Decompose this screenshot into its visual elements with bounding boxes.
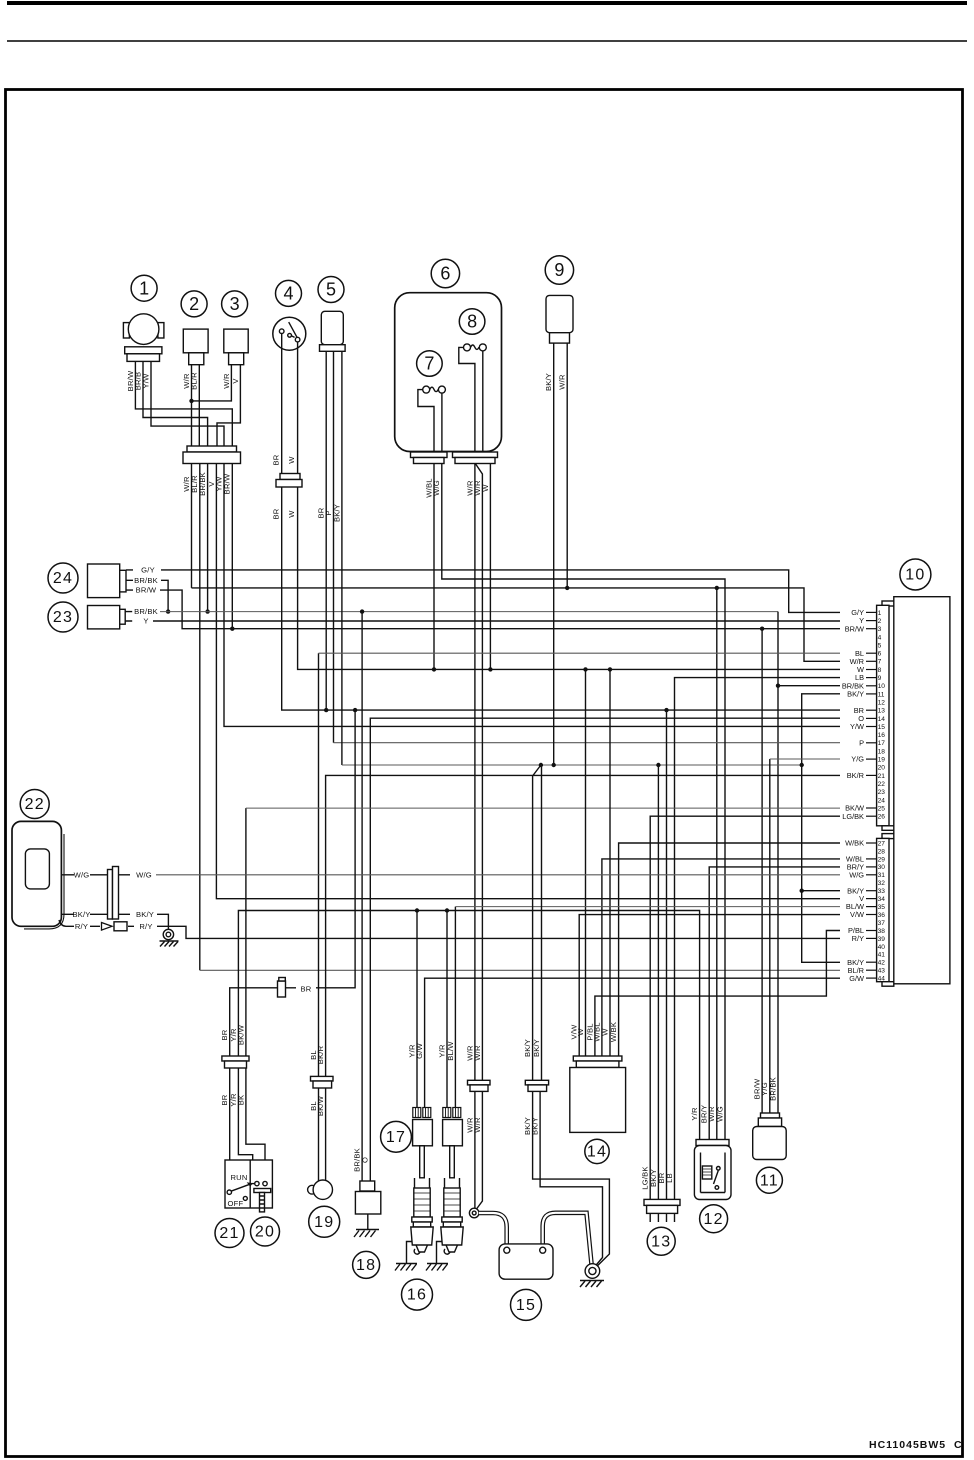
wire comp24 BR/BK drop to BR/BK line [161,580,168,611]
component 2 connector [183,329,208,365]
svg-text:BR: BR [272,454,281,465]
label circle 3 [222,291,248,317]
wire BR branch to kill switch [286,710,356,988]
wire comp13 BR up [666,710,668,1199]
svg-text:21: 21 [878,773,886,780]
component 9 plug boot [546,295,573,343]
svg-text:12: 12 [703,1211,723,1228]
component 20 starter button [249,1181,271,1212]
svg-text:10: 10 [878,683,886,690]
component 5 plug boot [320,311,346,351]
svg-text:19: 19 [314,1214,334,1231]
component 15 battery [499,1244,553,1279]
wire comp21 BK/W to switch20 [246,1066,265,1182]
label circle 8 [459,309,485,335]
label circle 12 [700,1205,728,1233]
svg-text:43: 43 [878,968,886,975]
svg-text:BR: BR [220,1029,229,1040]
svg-text:44: 44 [878,976,886,983]
label circle 16 [402,1279,433,1310]
component 21 connector [222,1056,249,1068]
connector on comp4 wires BR [278,978,286,998]
pin stub lines [866,612,877,978]
wire comp7 W lead down to W net [433,464,435,670]
svg-text:16: 16 [407,1287,427,1304]
svg-text:BR/BK: BR/BK [134,607,158,616]
wire BK/Y pair right [541,765,543,1080]
wire V/W net comp14 to pin36 [579,915,840,1056]
svg-text:BR/W: BR/W [223,473,232,494]
svg-text:28: 28 [878,848,886,855]
wire R/Y net comp22 to pin39 [157,926,840,938]
svg-text:39: 39 [878,936,886,943]
component 4 connector [276,474,302,488]
svg-text:6: 6 [878,651,882,658]
wire O net comp18 to pin14 [370,718,840,1186]
connector on comp19 wires [0,0,1,1]
component 6 connector bar right [453,452,498,464]
wire BK/Y net line [342,764,802,766]
svg-text:W: W [481,484,490,492]
component 4 ignition switch [273,317,306,350]
svg-text:BK/Y: BK/Y [136,910,154,919]
wire comp14 W2 up [609,669,611,1056]
svg-text:3: 3 [878,626,882,633]
wire W/BL net comp14 to pin29 [602,859,840,1056]
wire comp17 Y/R left down [416,911,418,1108]
svg-text:15: 15 [878,724,886,731]
svg-text:R/Y: R/Y [852,934,864,943]
svg-text:1: 1 [878,610,882,617]
wire LG/BK net comp13 to pin26 [650,816,840,1199]
wire Y/R net line [238,911,699,1142]
wire LB net comp13 to pin9 [675,678,841,1200]
svg-text:16: 16 [878,732,886,739]
svg-text:40: 40 [878,944,886,951]
wire W/G net comp22 to pin31 [156,874,840,876]
component 1 headlight [123,314,163,362]
node BK/Y diag junction [539,763,543,767]
label circle 2 [181,291,207,317]
svg-text:Y: Y [143,617,148,626]
svg-text:7: 7 [424,354,434,374]
label circle 1 [131,275,157,301]
connector pin numbers 1-26 [878,610,886,821]
wire W/R net to pin7 [192,588,841,661]
wire comp19 BL down to horn [318,1085,320,1181]
svg-text:BK/Y: BK/Y [72,910,90,919]
svg-text:R/Y: R/Y [139,922,152,931]
svg-text:W/R: W/R [558,374,567,390]
wire comp2 BL/R [198,365,200,452]
svg-text:33: 33 [878,888,886,895]
component 18 oil pressure switch [355,1181,380,1214]
svg-text:LB: LB [665,1173,674,1183]
svg-text:10: 10 [905,567,925,584]
wire BK/Y pair left to ground ring [533,1089,610,1266]
svg-text:17: 17 [878,740,886,747]
node comp13 BK/Y junction [656,763,660,767]
label circle 18 [353,1251,380,1278]
wire comp8 W/R pair right down [475,464,482,1081]
wire BK/Y pair right to ground ring [540,1089,602,1267]
component 17 ignition coil left [413,1108,433,1178]
node comp14 W1 junction [583,667,587,671]
svg-text:W/R: W/R [222,373,231,389]
svg-text:36: 36 [878,912,886,919]
svg-text:W/G: W/G [715,1106,724,1122]
wire pin10 stub [778,685,840,687]
svg-text:HC11045BW5 C: HC11045BW5 C [869,1439,963,1451]
label circle 21 [215,1219,244,1248]
wire comp7 W/G to comp12 [442,464,725,1142]
component 12 starter relay [694,1140,731,1200]
ground spark plug right [426,1242,448,1271]
wire pin33 stub [802,890,840,892]
svg-text:24: 24 [878,797,886,804]
svg-text:26: 26 [878,814,886,821]
battery positive cable [479,1213,507,1246]
svg-text:BK/Y: BK/Y [531,1117,540,1135]
wire BK/Y pair left diagonal [533,765,541,1080]
svg-text:W/G: W/G [432,480,441,496]
wire BK/W net comp21 to pin25 [245,808,247,1056]
svg-text:6: 6 [440,264,450,284]
svg-text:12: 12 [878,700,886,707]
node bundle BR/BK junction [205,609,209,613]
node comp24 BR/BK junction [166,609,170,613]
svg-text:20: 20 [878,765,886,772]
vertical wire name labels [126,370,778,1190]
wire BL/W net comp17 to pin35 [454,907,456,1108]
component 21 20 switch housing [225,1160,272,1208]
wire comp4 BR to pin13 [282,334,840,711]
svg-text:2: 2 [878,618,882,625]
component 11 connector [753,1113,787,1160]
svg-text:BR: BR [220,1094,229,1105]
wire W/R pair right below connector [477,1089,483,1209]
svg-text:34: 34 [878,896,886,903]
svg-text:18: 18 [878,748,886,755]
node comp12 W/R junction [715,586,719,590]
label circle 10 [900,559,931,590]
svg-text:38: 38 [878,928,886,935]
svg-text:BL/R: BL/R [190,372,199,390]
svg-text:BL/W: BL/W [446,1041,455,1061]
svg-text:W/G: W/G [136,870,152,879]
wire comp1 Y/W to junction [151,361,224,452]
pin wire labels block 2 [845,839,864,983]
component 10 pin block 1 [877,601,894,830]
ground spark plug left [395,1242,417,1271]
svg-text:25: 25 [878,805,886,812]
svg-text:7: 7 [878,659,882,666]
horizontal wire name labels [72,566,157,931]
svg-text:3: 3 [230,294,240,314]
svg-text:21: 21 [219,1225,239,1242]
svg-text:BK: BK [236,1095,245,1106]
svg-text:Y/W: Y/W [850,722,864,731]
wire W/BK net comp14 to pin27 [619,843,840,1056]
node BK/Y pin33 junction [800,889,804,893]
svg-text:9: 9 [554,260,564,280]
component 22 sub connector [90,867,134,927]
node W/R junction [189,399,193,403]
svg-text:W/G: W/G [74,870,90,879]
svg-text:BR/W: BR/W [136,586,157,595]
wire comp12 W/R vertical [716,588,718,1142]
wire comp22 BK/Y to ground [157,914,168,929]
wire bundle BR/W down to pin3 line [231,464,233,629]
svg-text:2: 2 [189,294,199,314]
svg-text:8: 8 [467,312,477,332]
svg-text:Y/W: Y/W [141,373,150,389]
svg-text:W: W [287,456,296,464]
header rule thin [7,40,967,42]
component 21 engine stop switch contacts [227,1173,253,1208]
svg-text:BK/W: BK/W [316,1095,325,1116]
svg-text:BK/Y: BK/Y [847,690,864,699]
wire comp8 W down to W net [489,464,491,670]
wire BL net comp19 to pin6 [318,653,320,1076]
svg-text:13: 13 [878,708,886,715]
svg-text:32: 32 [878,880,886,887]
diode symbol on R/Y wire [102,922,128,931]
label circle 15 [511,1289,542,1320]
wire comp2 W/R [191,365,193,452]
wire W/R pair below connector to ring [474,1089,476,1208]
svg-text:13: 13 [651,1233,671,1250]
svg-text:P: P [859,738,864,747]
component 8 crankshaft sensor coil [459,344,487,452]
component 7 pickup coil [418,386,446,452]
svg-text:BK/Y: BK/Y [544,373,553,391]
node comp9 W/R junction [565,586,569,590]
svg-text:5: 5 [878,642,882,649]
label circle 20 [251,1217,280,1246]
svg-text:11: 11 [878,691,885,698]
svg-text:4: 4 [878,634,882,641]
node BK/Y riser junction [800,763,804,767]
svg-text:42: 42 [878,960,886,967]
svg-text:OFF: OFF [228,1199,244,1208]
component 24 connector [88,564,134,598]
component 10 pin block 2 [877,834,894,987]
ring terminal battery positive [469,1208,479,1218]
svg-text:G/Y: G/Y [141,566,155,575]
node BR branch junction [353,708,357,712]
svg-text:22: 22 [878,781,886,788]
node comp13 BR junction [664,708,668,712]
component 3 connector [224,329,248,365]
wire comp9 BK/Y down [553,343,555,765]
svg-text:O: O [361,1157,370,1163]
wire comp13 BK/Y up [657,765,659,1199]
svg-text:4: 4 [283,284,293,304]
label circle 6 [431,259,459,287]
wire comp19 BK/W down to horn [325,1085,327,1182]
svg-text:5: 5 [326,280,336,300]
wire comp3 V [217,365,240,452]
svg-text:23: 23 [878,789,886,796]
svg-text:BR/BK: BR/BK [134,576,158,585]
svg-text:W: W [287,510,296,518]
svg-text:9: 9 [878,675,882,682]
wire comp1 BR/B to junction [143,361,208,452]
svg-text:1: 1 [139,278,149,298]
component 22 meter unit [12,821,74,929]
label circle 4 [276,280,302,306]
wire BR/BK thin line comp23 to comp11 [160,611,778,613]
svg-text:BK/Y: BK/Y [523,1039,532,1057]
node comp14 W2 junction [608,667,612,671]
label circle 23 [48,602,78,632]
label circle 17 [381,1121,412,1152]
svg-text:19: 19 [878,757,886,764]
wire bundle V down to pin34 [216,464,840,899]
node comp9 BK/Y junction [552,763,556,767]
label circle 9 [545,256,573,284]
svg-text:Y/R: Y/R [690,1107,699,1121]
component 16 spark plug right [441,1178,463,1254]
component 19 horn [308,1180,333,1199]
wire comp13 stubs below connector [650,1213,674,1222]
wire comp5 BR [325,351,327,710]
wire comp18 stub to ground [367,1214,369,1230]
svg-text:37: 37 [878,920,886,927]
component 6 connector bar left [411,452,448,464]
header rule thick [7,1,967,5]
node comp17 Y/R left junction [415,908,419,912]
node comp17 Y/R right junction [445,908,449,912]
svg-text:W/BK: W/BK [609,1022,618,1042]
component 13 connector [644,1199,680,1213]
svg-text:BR/BK: BR/BK [198,472,207,496]
label circle 11 [756,1167,782,1193]
svg-text:30: 30 [878,864,886,871]
svg-text:BK/W: BK/W [236,1024,245,1045]
svg-text:22: 22 [25,796,45,813]
wire comp21 Y/R to switch [238,1066,252,1182]
svg-text:R/Y: R/Y [75,922,88,931]
label circle 24 [48,563,78,593]
wire G/Y net comp24 to pin1 [161,570,840,613]
svg-text:W/R: W/R [473,1117,482,1133]
svg-text:20: 20 [255,1224,275,1241]
svg-text:11: 11 [760,1172,779,1189]
wire BR/Y net comp12 to pin30 [709,867,840,1142]
pin wire labels block 1 [842,608,864,821]
label circle 5 [318,277,344,303]
wire comp9 W/R down [566,343,568,588]
battery negative cable [543,1213,592,1264]
wire bundle W/R down to W/R net [191,464,193,588]
wire comp17 Y/R right down [446,911,448,1108]
svg-text:Y/G: Y/G [851,755,864,764]
svg-text:BR/BK: BR/BK [768,1077,777,1101]
svg-text:V: V [231,378,240,384]
label circle 19 [309,1206,340,1237]
label circle 13 [647,1227,675,1255]
component 6 magneto cover [395,293,502,452]
component 23 connector [88,606,133,629]
svg-text:BK/R: BK/R [316,1045,325,1064]
svg-text:17: 17 [386,1129,406,1146]
component 14 CDI bracket [570,1056,626,1132]
component 10 ECU body [894,597,950,984]
svg-text:18: 18 [356,1257,376,1274]
svg-text:BR: BR [272,508,281,519]
label circle 7 [417,351,443,377]
svg-text:BK/Y: BK/Y [532,1039,541,1057]
svg-text:14: 14 [878,716,886,723]
svg-text:G/W: G/W [849,974,864,983]
svg-text:41: 41 [878,952,886,959]
wire comp5 BK/Y to BK/Y line [341,351,343,765]
svg-text:LG/BK: LG/BK [842,812,864,821]
svg-text:23: 23 [53,609,73,626]
wire comp21 BR to switch contact [229,1066,231,1190]
wire Y net comp23 to pin2 [153,620,840,622]
connector pin numbers 27-44 [878,840,886,982]
wire comp3 W/R joins comp2 W/R [192,365,232,401]
label circle 22 [20,790,49,819]
node comp5 BR junction [324,708,328,712]
node BR/BK pin10 junction [776,684,780,688]
node comp11 BR/W junction [760,627,764,631]
svg-text:G/W: G/W [415,1042,424,1058]
node comp18 BR/BK junction [360,609,364,613]
component 16 spark plug left [411,1178,433,1254]
svg-text:14: 14 [587,1144,607,1161]
ground comp22 bolt [160,929,179,946]
svg-text:29: 29 [878,856,886,863]
svg-text:27: 27 [878,840,886,847]
wire P/BL net comp14 to pin38 [595,931,840,1057]
node bundle BR/W junction [230,627,234,631]
svg-text:W: W [576,1028,585,1036]
wire bundle Y/W down to pin15 [224,464,840,727]
component 17 ignition coil right [443,1108,463,1178]
svg-text:15: 15 [516,1297,536,1314]
wire comp4 W to pin8 [298,342,840,670]
wire Y/G net comp11 to pin19 [769,759,771,1116]
svg-text:24: 24 [53,570,73,587]
node comp8 W junction [488,667,492,671]
node comp7 lead junction [432,667,436,671]
wire bundle BR/BK down to BR/BK line [207,464,209,612]
svg-text:V/W: V/W [850,910,864,919]
svg-text:W/G: W/G [849,870,864,879]
svg-text:BR/W: BR/W [845,624,864,633]
wire G/W net comp17 to pin44 [425,978,840,1107]
wire comp14 W1 up [585,669,587,1056]
svg-text:W/BK: W/BK [845,839,864,848]
junction connector bar comps 1-3 [183,446,241,464]
wire comp18 BR/BK up [361,612,363,1186]
svg-text:BR: BR [301,985,312,994]
svg-text:BK/Y: BK/Y [332,504,341,522]
svg-text:BK/R: BK/R [847,771,864,780]
wire comp8 W/R pair left down [474,464,476,1081]
svg-text:RUN: RUN [231,1173,248,1182]
wire comp21 BR riser [230,988,278,1056]
wire BK/R net comp19 to pin21 [326,775,840,1076]
wire comp5 P to pin17 [333,351,335,743]
ground comp18 [354,1230,379,1238]
wire comp11 BR/W up to pin3 line [761,629,763,1116]
wire BK/Y riser pin11 pin33 pin42 [802,694,840,963]
